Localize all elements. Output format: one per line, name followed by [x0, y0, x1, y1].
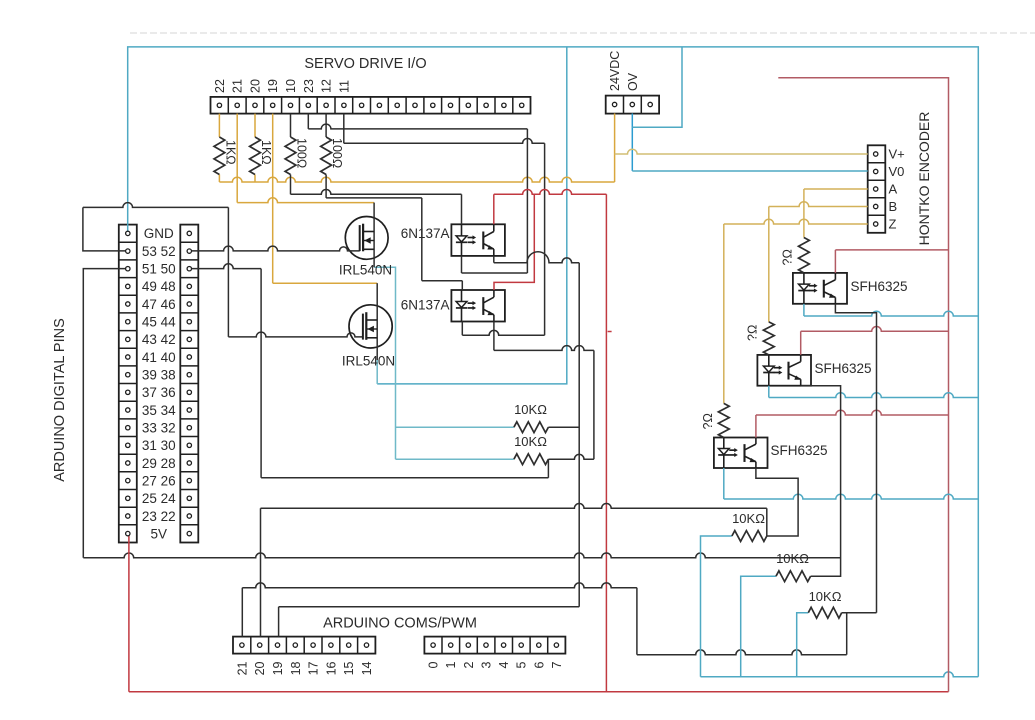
wire 5V/red bottom rail	[129, 691, 949, 693]
resistor R6 10Kohm	[514, 454, 549, 465]
svg-text:1: 1	[444, 661, 458, 668]
wire Q2 drain-source vertical lead	[376, 283, 378, 360]
svg-text:0: 0	[427, 661, 441, 668]
svg-text:20: 20	[253, 661, 267, 675]
svg-text:16: 16	[324, 661, 338, 675]
wire 24V pull-up rail joining resistor bottoms (orange)	[219, 177, 614, 182]
wire red right riser and top feed (dusty red)	[778, 78, 948, 692]
wire 0V pin drop from J2 (blue)	[631, 113, 633, 170]
svg-text:18: 18	[289, 661, 303, 675]
wire 0V branch vertical mid (teal) from top border to Q2 source net	[377, 47, 567, 384]
svg-text:23: 23	[302, 79, 316, 93]
svg-text:1KΩ: 1KΩ	[223, 140, 237, 165]
wire 5V red from Arduino 5V pin to bottom rail	[128, 534, 130, 692]
svg-text:7: 7	[550, 661, 564, 668]
svg-text:4: 4	[497, 661, 511, 668]
svg-text:GND: GND	[144, 226, 174, 241]
svg-text:100Ω: 100Ω	[330, 138, 344, 168]
wire Arduino pin50 row to R6 node	[192, 264, 262, 269]
wire servo pin11 to U2 cathode	[343, 114, 345, 144]
svg-text:Z: Z	[889, 217, 897, 232]
svg-text:11: 11	[337, 80, 351, 93]
wire 10K R6 left lead (lt cyan)	[396, 458, 514, 460]
svg-text:?Ω: ?Ω	[701, 413, 715, 429]
wire R4 bottom to U2 anode	[325, 175, 327, 198]
resistor R13 ?-ohm	[718, 403, 729, 437]
wire U4 collector feed (dusty red)	[800, 331, 802, 355]
connector J1 SERVO DRIVE I/O header (18 pins)	[211, 97, 531, 114]
wire U4 cathode to 0V (cyan)	[768, 386, 770, 398]
op-amp U1 6N137A internal symbol	[456, 224, 494, 256]
svg-text:25 24: 25 24	[142, 491, 176, 506]
wire servo pin20 to R2 (orange)	[254, 114, 256, 137]
wire U5 cathode to 0V (cyan)	[723, 468, 725, 499]
wire 10K R6 right node down to Arduino pin50 line	[547, 459, 549, 478]
connector J6 ARDUINO COMS/PWM header pins 0-7	[424, 637, 565, 654]
wire Q1 source to 10K resistors (lt cyan)	[374, 267, 395, 459]
connector J4 ARDUINO DIGITAL PINS right column (18 pins)	[180, 225, 198, 543]
wire U5 collector feed (dusty red)	[755, 415, 757, 438]
svg-text:10KΩ: 10KΩ	[809, 589, 842, 604]
wire encoder Z to ?-ohm R13 (gold)	[724, 219, 868, 224]
pin circles J2 power header	[612, 102, 652, 106]
svg-text:31 30: 31 30	[142, 438, 176, 453]
op-amp U3 SFH6325 internal symbol	[798, 273, 836, 304]
resistor R10 10Kohm	[808, 607, 841, 618]
op-amp U2 6N137A optocoupler box	[451, 290, 505, 322]
svg-text:SFH6325: SFH6325	[771, 443, 828, 458]
wire 0V net border loop (cyan) around schematic	[128, 47, 979, 677]
connector J5 ARDUINO COMS/PWM header pins 21-14	[233, 637, 375, 654]
pin circles J5 coms header A	[240, 643, 369, 647]
decorative faint top edge (not labelled further)	[130, 32, 1035, 34]
resistor R12 ?-ohm	[763, 322, 774, 355]
svg-text:ARDUINO COMS/PWM: ARDUINO COMS/PWM	[323, 616, 477, 632]
svg-text:51 50: 51 50	[142, 262, 176, 277]
connector J7 HONTKO ENCODER header (V+ V0 A B Z)	[868, 145, 886, 233]
op-amp U5 SFH6325 internal symbol	[718, 438, 756, 469]
svg-text:21: 21	[231, 79, 245, 93]
wire Arduino pin52 row to Q1 gate	[192, 246, 360, 251]
wire servo pin21 net to Q1 drain (orange)	[236, 114, 238, 203]
svg-text:10KΩ: 10KΩ	[514, 434, 547, 449]
svg-text:?Ω: ?Ω	[781, 249, 795, 265]
svg-text:IRL540N: IRL540N	[342, 353, 395, 368]
svg-text:17: 17	[307, 661, 321, 675]
svg-text:41 40: 41 40	[142, 350, 176, 365]
pin circles J1 servo header	[217, 103, 524, 107]
wire Arduino pin53 loop to Q2 gate	[83, 207, 126, 251]
connector J2 24VDC/0V power header (3 pins)	[606, 96, 659, 114]
svg-text:5V: 5V	[151, 526, 168, 541]
svg-text:12: 12	[320, 79, 334, 93]
svg-text:SERVO DRIVE I/O: SERVO DRIVE I/O	[304, 56, 426, 72]
wire U3 emitter to 10K R10 and COMS pin21 branch	[835, 304, 876, 613]
wire V+ supply line from 24VDC to encoder V+ (khaki)	[615, 149, 868, 154]
connector J3 ARDUINO DIGITAL PINS left column (18 pins)	[119, 225, 137, 543]
wire COMS pin21 line to U3 emitter node	[241, 588, 243, 637]
svg-text:ARDUINO DIGITAL PINS: ARDUINO DIGITAL PINS	[52, 318, 68, 482]
svg-text:A: A	[889, 182, 898, 197]
resistor R3 100ohm	[285, 137, 296, 175]
wire Q1 drain-source vertical lead	[373, 203, 375, 268]
wire encoder A to ?-ohm R11 (gold)	[804, 188, 868, 190]
wire R2 bottom stub (orange)	[254, 175, 256, 183]
wire red branch to U2 collector	[494, 194, 534, 290]
svg-text:39 38: 39 38	[142, 368, 176, 383]
wire servo pin22 to R1 (orange)	[218, 114, 220, 137]
op-amp U4 SFH6325 internal symbol	[763, 355, 801, 386]
svg-text:15: 15	[342, 661, 356, 675]
resistor R4 100ohm	[321, 137, 332, 175]
svg-text:1KΩ: 1KΩ	[259, 140, 273, 165]
wire Arduino pin51 loop to SFH U4 emitter rail	[83, 269, 125, 558]
wire R3 bottom to U1 anode	[290, 175, 292, 195]
svg-text:14: 14	[360, 661, 374, 675]
wire servo pin10 to R3 (black)	[290, 114, 292, 137]
wire U2 cathode lead	[461, 322, 463, 336]
svg-text:23 22: 23 22	[142, 509, 176, 524]
svg-text:5: 5	[515, 661, 529, 668]
wire 24VDC drop from J2 pin (orange)	[614, 113, 616, 182]
svg-text:2: 2	[462, 661, 476, 668]
svg-text:6N137A: 6N137A	[401, 298, 450, 313]
svg-text:HONTKO ENCODER: HONTKO ENCODER	[916, 112, 932, 246]
pin circles J7 encoder	[874, 152, 878, 226]
svg-text:45 44: 45 44	[142, 315, 176, 330]
svg-text:10KΩ: 10KΩ	[776, 551, 809, 566]
svg-text:V0: V0	[889, 164, 905, 179]
op-amp U4 SFH6325 optocoupler box	[757, 355, 811, 386]
svg-text:53 52: 53 52	[142, 244, 176, 259]
labels arduino digital rows	[142, 226, 176, 541]
resistor R9 10Kohm	[776, 571, 811, 582]
transistor Q2 IRL540N body circle	[349, 305, 392, 348]
wire opto collector supply net (red)	[493, 194, 495, 224]
wire U1 emitter to 10K R5 and COMS pin19	[493, 256, 495, 263]
svg-text:27 26: 27 26	[142, 473, 176, 488]
op-amp U1 6N137A optocoupler box	[451, 224, 505, 256]
svg-text:?Ω: ?Ω	[746, 325, 760, 341]
wire branch emitter U3 down to pin21 line	[846, 613, 848, 655]
wire encoder B to ?-ohm R12 (gold)	[769, 202, 868, 207]
svg-text:47 46: 47 46	[142, 297, 176, 312]
svg-text:SFH6325: SFH6325	[815, 361, 872, 376]
svg-text:10: 10	[284, 79, 298, 93]
resistor R1 1Kohm	[214, 137, 225, 175]
svg-text:24VDC: 24VDC	[608, 51, 622, 91]
svg-text:B: B	[889, 199, 898, 214]
wire 10K R5 left lead (lt cyan)	[396, 426, 514, 428]
svg-text:V+: V+	[889, 147, 905, 162]
wire servo pin12 to R4 (black)	[325, 114, 327, 137]
wire 10K R8 left lead and 0V drop (cyan)	[701, 536, 732, 677]
wire 10K R5 right lead	[548, 426, 579, 428]
resistor R2 1Kohm	[250, 137, 261, 175]
svg-text:33 32: 33 32	[142, 421, 176, 436]
wire U2 emitter to 10K R6	[493, 322, 495, 351]
labels servo pin numbers	[213, 79, 352, 93]
wire U3 collector feed (dusty red)	[834, 250, 836, 273]
svg-text:100Ω: 100Ω	[295, 138, 309, 168]
wire 10K R9 left lead and 0V drop (cyan)	[741, 576, 776, 677]
wire 0V link from J2 to top border (cyan)	[632, 47, 682, 127]
wire U1 cathode lead	[461, 256, 463, 273]
svg-text:SFH6325: SFH6325	[851, 279, 908, 294]
node tick on red vertical	[608, 331, 612, 333]
resistor R8 10Kohm	[732, 531, 767, 542]
svg-text:22: 22	[213, 79, 227, 93]
wire U4 emitter to 10K R9	[801, 386, 841, 577]
labels coms header B pin numbers	[427, 661, 564, 668]
svg-text:OV: OV	[626, 72, 640, 91]
transistor Q1 IRL540N body circle	[345, 217, 388, 260]
svg-text:IRL540N: IRL540N	[339, 262, 392, 277]
svg-text:49 48: 49 48	[142, 279, 176, 294]
transistor Q1 IRL540N internal symbol	[360, 224, 374, 252]
wire servo pin19 net to Q2 drain (orange)	[272, 114, 274, 284]
op-amp U3 SFH6325 optocoupler box	[793, 273, 847, 304]
svg-text:19: 19	[271, 661, 285, 675]
wire R1 bottom stub (orange)	[218, 175, 220, 183]
svg-text:19: 19	[266, 79, 280, 93]
pin circles J6 coms header B	[431, 643, 559, 647]
resistor R11 ?-ohm	[799, 238, 810, 273]
svg-text:43 42: 43 42	[142, 332, 176, 347]
svg-text:21: 21	[235, 661, 249, 675]
wire COMS pin20 line to U5 emitter node	[260, 508, 262, 636]
svg-text:20: 20	[249, 79, 263, 93]
wire servo pin23 to U1 cathode	[307, 114, 309, 129]
svg-text:10KΩ: 10KΩ	[514, 402, 547, 417]
labels coms header A pin numbers	[235, 661, 374, 675]
wire 10K R10 left lead and 0V drop (cyan)	[797, 613, 809, 677]
wire U3 cathode to 0V (cyan)	[803, 304, 805, 316]
op-amp U5 SFH6325 optocoupler box	[714, 438, 768, 469]
svg-text:6: 6	[532, 661, 546, 668]
svg-text:29 28: 29 28	[142, 456, 176, 471]
svg-text:10KΩ: 10KΩ	[732, 511, 765, 526]
op-amp U2 6N137A internal symbol	[456, 290, 494, 322]
wire U5 emitter to 10K R8	[756, 468, 798, 536]
transistor Q2 IRL540N internal symbol	[363, 312, 377, 340]
wire 0V bottom rail to pulldown resistors (cyan)	[701, 672, 979, 677]
wire Q2 source to 0V (lt cyan)	[376, 360, 378, 384]
resistor R5 10Kohm	[514, 422, 549, 433]
pin circles J3 J4 arduino strips	[126, 231, 192, 536]
wire 0V net GND-pin stub through strip (cyan)	[127, 225, 129, 234]
svg-text:6N137A: 6N137A	[401, 226, 450, 241]
svg-text:35 34: 35 34	[142, 403, 176, 418]
wire V0 line from J2 0V pin to encoder V0 (teal)	[632, 170, 867, 172]
svg-text:3: 3	[480, 661, 494, 668]
svg-text:37 36: 37 36	[142, 385, 176, 400]
